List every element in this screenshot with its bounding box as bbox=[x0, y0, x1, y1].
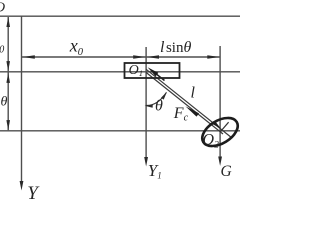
cart rectangle bbox=[125, 63, 180, 78]
rail line through cart bbox=[0, 71, 240, 73]
svg-text:Y1: Y1 bbox=[148, 161, 162, 180]
arrowhead lsin dim right bbox=[207, 55, 219, 58]
svg-text:lsinθ: lsinθ bbox=[160, 39, 191, 56]
arrowhead at ball center on rod bbox=[213, 121, 221, 128]
pivot vertical line Y1 bbox=[145, 47, 147, 158]
svg-text:l: l bbox=[191, 85, 196, 102]
force Fc mid arrowhead on rod bbox=[185, 106, 199, 116]
svg-text:O: O bbox=[0, 0, 5, 15]
svg-text:x0: x0 bbox=[69, 36, 84, 59]
radius tick inside ball bbox=[220, 122, 228, 132]
arrowhead y0 dim bottom bbox=[6, 61, 10, 71]
dimension line theta-height (vertical) bbox=[7, 73, 9, 131]
force Fc arrowhead at pivot bbox=[148, 67, 159, 76]
svg-text:Fc: Fc bbox=[173, 105, 189, 124]
pendulum rod lower line bbox=[146, 72, 223, 134]
arrowhead Y axis bbox=[20, 181, 24, 191]
svg-text:O1: O1 bbox=[129, 63, 143, 78]
ball-level horizontal line bbox=[0, 130, 240, 132]
angle theta arc bbox=[146, 92, 167, 105]
force Fc spike tail bbox=[157, 74, 165, 80]
arrowhead x0 dim right bbox=[133, 55, 145, 58]
theta arc arrowhead left bbox=[145, 105, 153, 108]
X axis line (top horizontal) bbox=[0, 15, 240, 17]
svg-text:G: G bbox=[221, 163, 232, 180]
ball vertical line G bbox=[219, 46, 221, 158]
arrowhead y0 dim top bbox=[6, 17, 10, 27]
dimension line y0 (vertical) bbox=[7, 17, 9, 71]
arrowhead x0 dim left bbox=[23, 55, 35, 58]
pendulum rod upper line bbox=[146, 69, 232, 138]
Y axis line bbox=[21, 16, 23, 182]
svg-text:θ: θ bbox=[155, 97, 163, 114]
arrowhead theta dim bottom bbox=[6, 120, 10, 130]
theta arc arrowhead right bbox=[161, 92, 167, 100]
svg-text:Y: Y bbox=[27, 183, 40, 200]
arrowhead theta dim top bbox=[6, 73, 10, 83]
dimension line x0 and lsin(theta) bbox=[22, 56, 220, 58]
arrowhead lsin dim left bbox=[147, 55, 159, 58]
ball ellipse O2 bbox=[197, 112, 242, 152]
arrowhead Y1 bbox=[144, 157, 148, 167]
svg-text:θ: θ bbox=[1, 95, 8, 110]
svg-text:y0: y0 bbox=[0, 39, 4, 56]
arrowhead G bbox=[218, 157, 222, 167]
svg-text:O2: O2 bbox=[203, 132, 220, 151]
